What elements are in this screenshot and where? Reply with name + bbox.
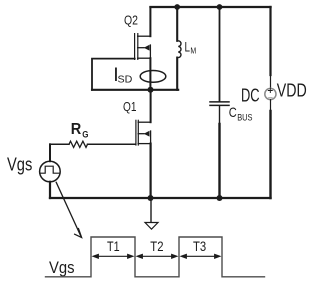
Q1 body-source vertical — [150, 131, 152, 144]
capacitor C_BUS bottom plate — [210, 104, 229, 106]
resistor R_G label — [71, 121, 89, 140]
node junction dot ground — [148, 195, 154, 201]
Q2 source stub — [138, 57, 151, 59]
svg-text:G: G — [82, 129, 88, 140]
resistor R_G zigzag — [69, 141, 87, 147]
svg-text:Q2: Q2 — [124, 13, 138, 28]
capacitor C_BUS bottom lead wire — [219, 106, 221, 198]
svg-text:T2: T2 — [150, 239, 163, 254]
T3 dimension arrow — [180, 254, 222, 259]
ground stem — [150, 198, 152, 222]
wire bottom rail — [50, 197, 271, 199]
T1 dimension arrow — [92, 254, 135, 259]
node junction dot C_BUS top — [217, 4, 223, 10]
T2 dimension arrow — [136, 254, 179, 259]
transistor Q2 — [135, 7, 151, 90]
wire Vgs to R_G — [50, 143, 69, 145]
Vgs top lead wire — [49, 144, 51, 161]
C_BUS label — [229, 105, 253, 122]
svg-text:Vgs: Vgs — [49, 258, 75, 277]
svg-text:C: C — [229, 105, 237, 120]
Q2 source lead wire — [149, 58, 151, 90]
Q1 drain stub — [138, 121, 150, 123]
Vgs pulse source circle — [40, 161, 61, 182]
I_SD label — [113, 64, 132, 86]
svg-text:T3: T3 — [193, 239, 206, 254]
wire top rail — [151, 6, 271, 8]
inductor L_M coil — [177, 41, 181, 58]
inductor L_M top lead — [176, 7, 178, 41]
Vgs pulse symbol — [40, 166, 59, 173]
node junction dot — [148, 87, 154, 93]
svg-text:BUS: BUS — [237, 112, 252, 122]
waveform square wave — [46, 237, 265, 277]
Q2 gate bar — [134, 34, 136, 60]
svg-text:SD: SD — [118, 74, 133, 85]
DC source plus mark — [268, 89, 272, 93]
svg-text:DC: DC — [241, 86, 260, 106]
svg-text:M: M — [190, 47, 196, 56]
node junction dot C_BUS bottom — [217, 195, 223, 201]
Q1 drain lead wire — [150, 90, 152, 122]
DC source minus mark — [269, 97, 273, 99]
Q2 body arrow — [144, 45, 150, 51]
Q1 source lead wire — [150, 144, 152, 198]
svg-text:VDD: VDD — [277, 81, 307, 101]
Q2 body-source vertical — [149, 45, 151, 58]
svg-text:Q1: Q1 — [123, 99, 137, 114]
wire R_G to Q1 gate — [88, 143, 136, 145]
DC source circle — [265, 88, 276, 99]
Q2 drain lead wire — [149, 7, 151, 36]
Q1 channel bar — [137, 120, 139, 145]
Q1 body arrow — [144, 131, 150, 137]
L_M label — [185, 39, 197, 56]
ground triangle — [145, 223, 158, 230]
Q1 body stub — [138, 133, 144, 135]
svg-text:R: R — [71, 121, 82, 138]
Q2 drain stub — [138, 35, 151, 37]
transistor Q1 — [136, 90, 151, 198]
capacitor C_BUS top lead wire — [219, 7, 221, 102]
annotation arrowhead — [75, 229, 82, 238]
Q1 source stub — [138, 143, 150, 145]
DC source bottom lead wire — [270, 100, 272, 111]
capacitor C_BUS top plate — [210, 101, 229, 103]
annotation arrow Vgs to waveform — [56, 182, 81, 236]
Q1 gate bar — [135, 120, 137, 145]
Q2 body stub — [138, 47, 144, 49]
inductor L_M bottom lead — [176, 58, 178, 90]
svg-text:Vgs: Vgs — [7, 155, 32, 175]
Vgs bottom lead wire — [49, 182, 51, 198]
node junction dot L_M top — [174, 4, 180, 10]
I_SD current ellipse — [140, 71, 166, 83]
svg-text:L: L — [185, 39, 191, 55]
Q2 channel bar — [137, 34, 139, 60]
DC source top lead wire — [269, 7, 271, 75]
Q2 gate loop wire — [92, 59, 135, 90]
svg-text:T1: T1 — [107, 239, 120, 254]
node wire (Q2 source / Q1 drain node) — [92, 89, 178, 91]
